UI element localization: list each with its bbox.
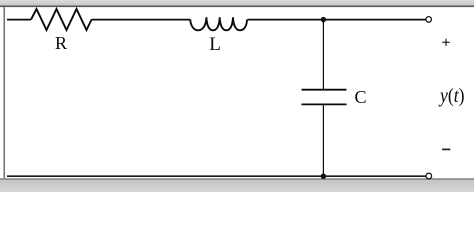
capacitor C bottom plate [302, 103, 347, 105]
svg-text:C: C [355, 87, 367, 107]
wire: node A to top terminal [323, 19, 425, 21]
svg-text:y(t): y(t) [438, 85, 464, 107]
wire: resistor to inductor [92, 19, 191, 21]
bottom output terminal (open circle) [426, 173, 432, 179]
polarity plus sign [442, 39, 449, 46]
left figure frame line [3, 7, 5, 178]
wire: inductor to node A [247, 19, 323, 21]
wire: top-left lead into resistor [7, 19, 31, 21]
wire: node A down to capacitor [322, 20, 324, 89]
wire: capacitor down to node B [322, 105, 324, 176]
wire: bottom return conductor [7, 175, 426, 177]
polarity minus sign [442, 148, 450, 150]
top chrome divider line [0, 6, 474, 8]
top window chrome bar [0, 0, 474, 6]
top output terminal (open circle) [426, 17, 432, 23]
bottom window chrome bar [0, 178, 474, 180]
node A (top junction dot) [321, 17, 326, 22]
svg-text:R: R [55, 33, 67, 53]
svg-text:L: L [209, 34, 221, 55]
inductor L [190, 17, 247, 30]
resistor R [31, 9, 92, 30]
node B (bottom junction dot) [321, 174, 326, 179]
capacitor C top plate [302, 89, 347, 91]
